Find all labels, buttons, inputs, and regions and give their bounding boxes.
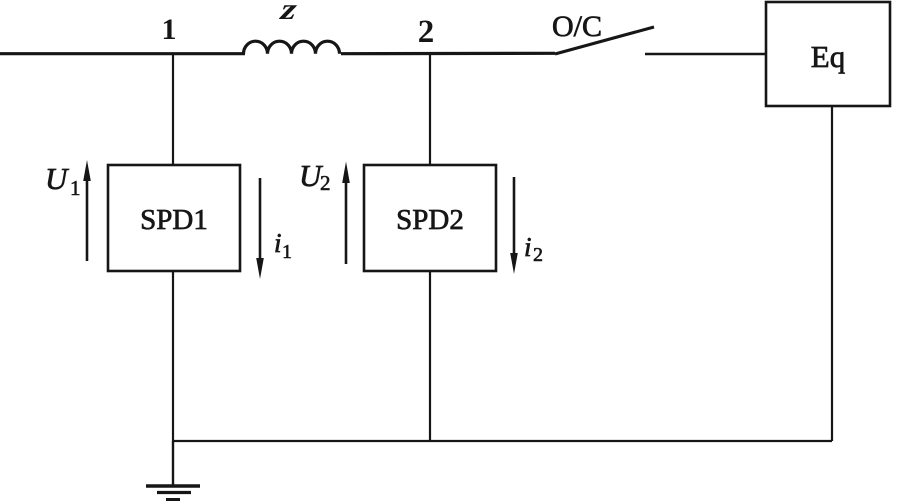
svg-text:2: 2 bbox=[320, 171, 331, 195]
inductor z bbox=[244, 41, 340, 54]
wire Eq to bottom bus bbox=[831, 106, 833, 441]
svg-text:i: i bbox=[274, 228, 282, 258]
box SPD1 bbox=[108, 165, 240, 271]
svg-text:i: i bbox=[524, 232, 532, 262]
svg-text:Eq: Eq bbox=[811, 39, 845, 74]
svg-text:SPD1: SPD1 bbox=[140, 204, 208, 236]
wire bottom bus bbox=[173, 440, 832, 442]
svg-text:SPD2: SPD2 bbox=[396, 204, 464, 236]
box SPD2 bbox=[364, 165, 496, 271]
arrow i2 down bbox=[513, 177, 516, 255]
wire top bus left segment bbox=[0, 52, 245, 55]
wire top bus middle segment bbox=[341, 52, 555, 56]
svg-text:2: 2 bbox=[533, 244, 543, 266]
arrow i1 down bbox=[259, 178, 262, 260]
svg-text:U: U bbox=[45, 161, 70, 196]
wire node 1 to SPD1 bbox=[172, 53, 174, 165]
wire SPD2 to bottom bus bbox=[429, 271, 431, 441]
box Eq bbox=[766, 2, 890, 106]
wire ground stem bbox=[172, 441, 174, 486]
svg-text:1: 1 bbox=[162, 13, 177, 46]
wire node 2 to SPD2 bbox=[429, 53, 431, 165]
wire SPD1 to bottom bus bbox=[172, 271, 174, 441]
arrow U1 up bbox=[86, 178, 89, 261]
switch O/C blade bbox=[555, 27, 654, 54]
wire switch to Eq bbox=[645, 53, 766, 55]
svg-text:1: 1 bbox=[70, 176, 81, 200]
ground bbox=[146, 486, 200, 500]
svg-text:O/C: O/C bbox=[552, 10, 602, 43]
arrow U2 up bbox=[345, 180, 348, 264]
svg-text:2: 2 bbox=[418, 14, 435, 50]
svg-text:1: 1 bbox=[282, 241, 292, 263]
